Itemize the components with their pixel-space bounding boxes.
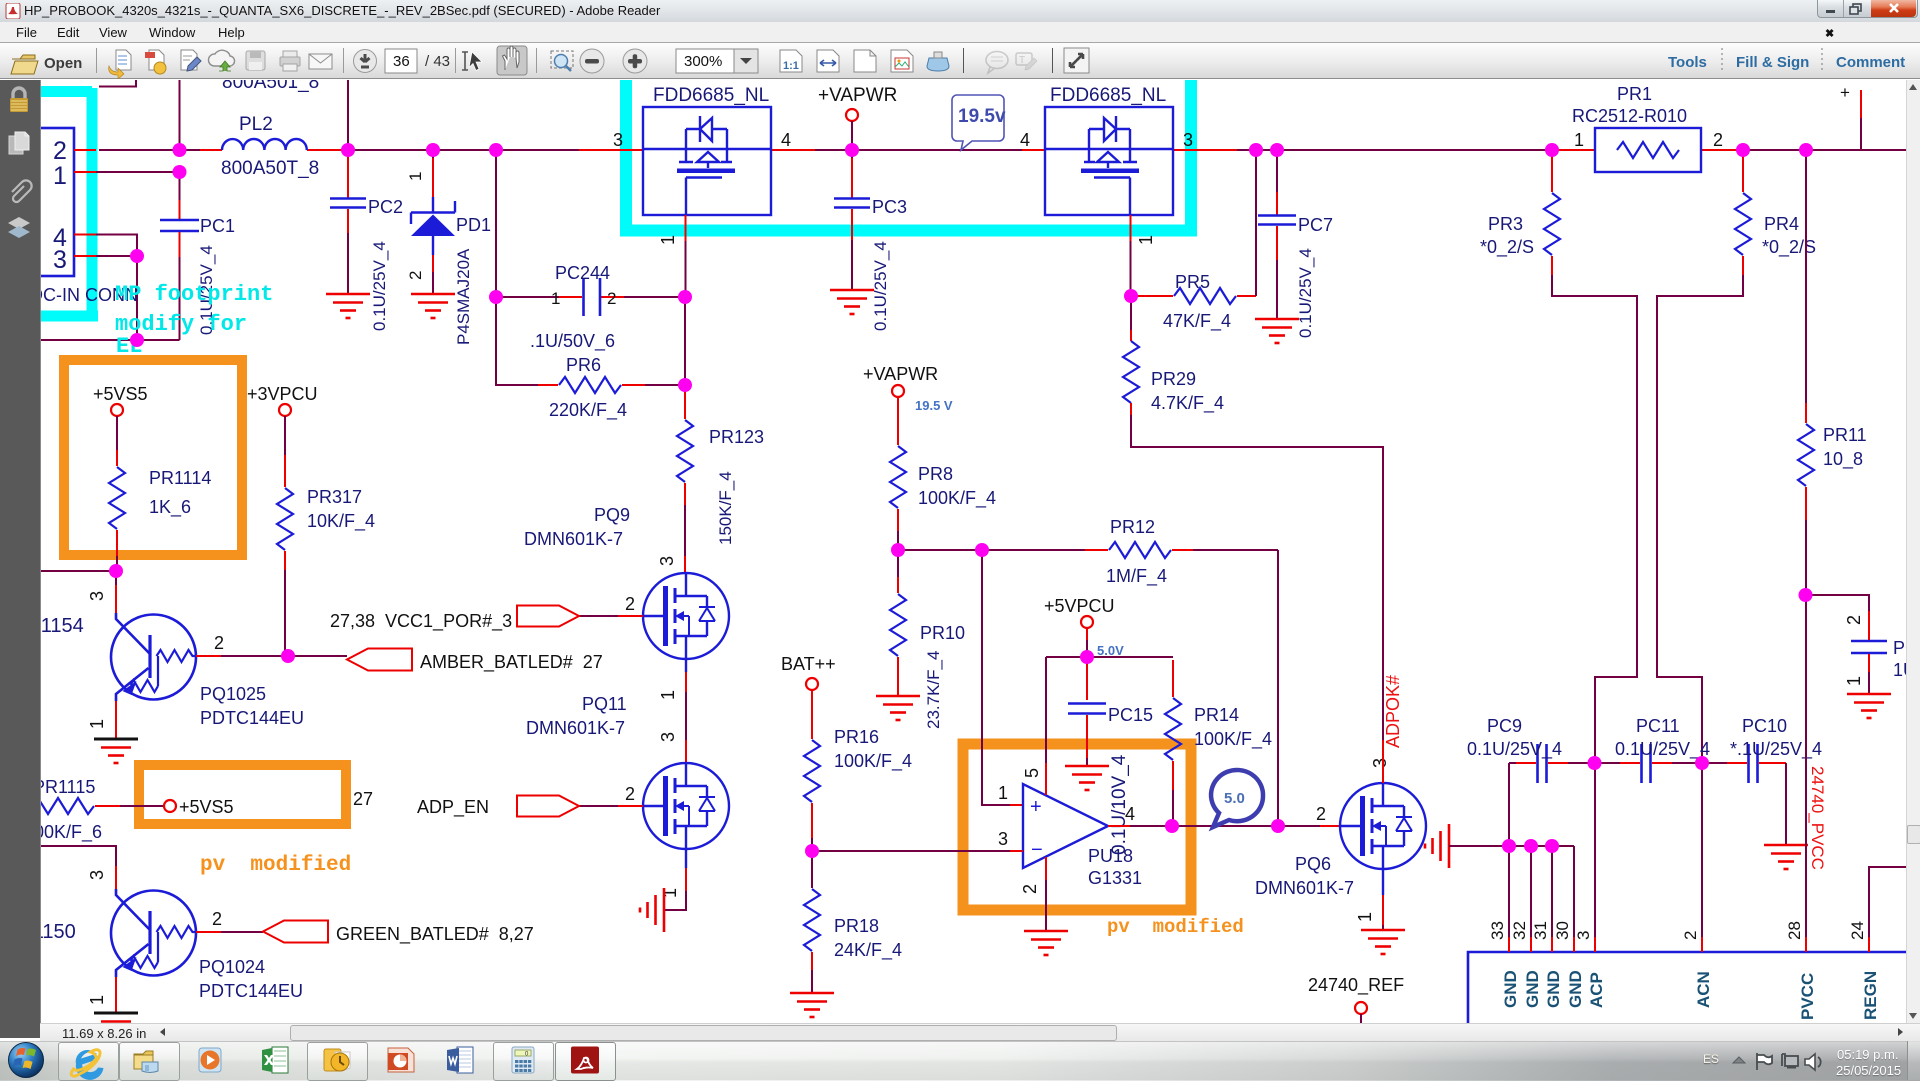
wire: ACP column / ACN column to pins: [1595, 763, 1702, 937]
op-amp PU18 G1331: [1023, 784, 1142, 888]
svg-text:24740_REF: 24740_REF: [1308, 975, 1404, 996]
svg-text:3: 3: [53, 246, 67, 274]
transistor PQ11 DMN601K-7: [643, 763, 729, 849]
node PR6 / PR123: [678, 378, 692, 392]
highlight: orange box around PU18: [963, 744, 1191, 910]
marquee zoom: [551, 51, 573, 71]
transistor Q: FDD6685_NL #2 (right P-FET block, mirrored): [1045, 107, 1173, 215]
node PC244 pin1: [489, 290, 503, 304]
diode PD1: [406, 150, 491, 345]
1:1: [780, 50, 802, 72]
wire: IC ground rail y=846: [1449, 845, 1574, 847]
wire: top-right + feed x=1861: [1860, 90, 1862, 118]
svg-text:19.5 V: 19.5 V: [915, 398, 953, 413]
comment bubble (disabled): [986, 52, 1008, 74]
ground under PC7: [1255, 319, 1299, 343]
node bus / PC7: [1270, 143, 1284, 157]
svg-text:27: 27: [353, 789, 373, 809]
svg-text:10_8: 10_8: [1823, 449, 1863, 470]
IC pin names GND GND GND GND ACP ACN PVCC REGN (rotated): [1501, 970, 1880, 1020]
printer: [280, 51, 300, 71]
svg-text:3: 3: [998, 829, 1008, 849]
svg-text:PR1154: PR1154: [41, 615, 84, 637]
resistor PR12: [1085, 517, 1193, 587]
node bus / PR5 riser: [1249, 143, 1263, 157]
svg-text:1: 1: [1844, 676, 1864, 686]
node PC11-PC10 / ACN: [1695, 756, 1709, 770]
capacitor P? (right edge, partially hidden): [1806, 595, 1920, 694]
svg-text:1: 1: [1136, 235, 1156, 245]
svg-text:*0_2/S: *0_2/S: [1480, 237, 1534, 258]
highlight: cyan box around FETs: [620, 80, 1197, 231]
svg-text:/ 43: / 43: [425, 53, 450, 70]
pin 1 of PQ1025 to ground: [115, 701, 117, 738]
pin 1 of FET2 + wire down: [1130, 215, 1132, 241]
resistor PR18: [804, 851, 902, 993]
svg-text:0.1U/25V_4: 0.1U/25V_4: [1467, 739, 1562, 760]
pin 3 of PU18 (minus input): [1010, 850, 1023, 852]
svg-text:47K/F_4: 47K/F_4: [1163, 311, 1231, 332]
svg-text:36: 36: [393, 53, 410, 70]
pin 2 of PQ9 (gate): [579, 615, 618, 617]
node gnd rail / pin33 / PC9 leg: [1502, 839, 1516, 853]
wire: PR317 bottom joins pin2 wire, continues to connector: [288, 655, 347, 657]
wire: PQ11 source to side ground: [685, 849, 687, 868]
cloud upload: [208, 50, 234, 71]
svg-text:PL2: PL2: [239, 114, 273, 135]
highlight: orange box around +5VS5: [139, 765, 346, 824]
Toolbar: [0, 42, 1920, 79]
svg-text:GREEN_BATLED# 8,27: GREEN_BATLED# 8,27: [336, 924, 534, 945]
node DC-IN pin1 / PC1: [173, 165, 187, 179]
text callout (disabled): [1016, 53, 1037, 70]
capacitor PC10: [1702, 716, 1822, 845]
wire: node down into PQ1025: [115, 571, 117, 585]
svg-text:2: 2: [53, 137, 67, 165]
wire: top-left stub from above: [99, 80, 136, 87]
ground (rotated) near PQ6 / IC gnd rail: [1425, 824, 1449, 868]
svg-text:RC2512-R010: RC2512-R010: [1572, 106, 1687, 126]
svg-text:1:1: 1:1: [783, 60, 799, 72]
connector flag ADP_EN: [517, 796, 579, 817]
node bus / PR1 pin2 / PR4: [1736, 143, 1750, 157]
svg-text:PR10: PR10: [920, 623, 965, 643]
svg-text:PC8: PC8: [1893, 638, 1906, 658]
Adobe Reader icon: [571, 1047, 599, 1074]
svg-text:PR12: PR12: [1110, 517, 1155, 537]
svg-text:PR8: PR8: [918, 464, 953, 484]
pin numbers 33 32 31 30 3 2 28 24: [1488, 921, 1867, 940]
svg-text:220K/F_4: 220K/F_4: [549, 400, 627, 421]
svg-text:PR6: PR6: [566, 355, 601, 375]
svg-text:ADPOK#: ADPOK#: [1383, 675, 1403, 748]
plus circle: [623, 49, 647, 73]
svg-text:PR29: PR29: [1151, 369, 1196, 389]
svg-text:PU18: PU18: [1088, 846, 1133, 866]
svg-text:1K_6: 1K_6: [149, 497, 191, 518]
resistor PR8: [890, 397, 996, 550]
resistor PR1115 (left edge): [24, 777, 164, 843]
resistor PR1 in box: [1572, 84, 1723, 172]
resistor PR123: [677, 389, 764, 573]
svg-text:GND: GND: [1544, 970, 1563, 1008]
svg-text:+5VPCU: +5VPCU: [1044, 596, 1115, 616]
svg-text:2: 2: [214, 633, 224, 653]
IE icon: [71, 1050, 103, 1080]
wire: PR12 right down to op-amp output: [1277, 550, 1279, 826]
svg-text:.1U/50V_6: .1U/50V_6: [530, 331, 615, 352]
svg-text:1: 1: [87, 719, 107, 729]
page box: [385, 49, 417, 73]
wire: REGN pin 24 from right edge: [1869, 867, 1906, 937]
svg-text:1: 1: [1355, 912, 1375, 922]
pin 1 of FET1 + wire down to PC244 node: [685, 215, 687, 241]
svg-text:PQ9: PQ9: [594, 505, 630, 525]
minus circle: [580, 49, 604, 73]
pin 5 of PU18: [1045, 763, 1047, 795]
node PC244 pin2 / FET1 source: [678, 290, 692, 304]
svg-text:PC15: PC15: [1108, 705, 1153, 725]
svg-text:0.1U/25V_4: 0.1U/25V_4: [1296, 248, 1315, 338]
svg-text:PC244: PC244: [555, 263, 610, 283]
node PR8 / PR10 / PR12 rail: [891, 543, 905, 557]
wire: PQ9 source to PQ11 drain: [685, 659, 687, 672]
pin 2 of PQ1024 to GREEN net: [196, 931, 221, 933]
svg-text:PR1114: PR1114: [149, 468, 211, 488]
svg-text:0.1U/25V_4: 0.1U/25V_4: [370, 241, 389, 331]
wire: PR8 node to PR12 and PU18 pin1: [898, 549, 1278, 551]
highlight: orange box around PR1114: [64, 360, 242, 555]
Calculator icon: [512, 1047, 534, 1073]
connector flag GREEN_BATLED#: [263, 921, 328, 943]
node bus / PC244 branch: [489, 143, 503, 157]
Excel icon: [262, 1047, 288, 1073]
svg-text:AMBER_BATLED# 27: AMBER_BATLED# 27: [420, 652, 603, 673]
wire: PR29 to PQ6 drain: [1131, 415, 1383, 740]
resistor PR10: [890, 550, 965, 729]
svg-text:800A50T_8: 800A50T_8: [221, 158, 319, 179]
svg-text:24: 24: [1848, 921, 1867, 940]
node bus / DC-IN pin2 feed: [173, 143, 187, 157]
svg-text:4: 4: [781, 130, 791, 150]
svg-text:30: 30: [1553, 921, 1572, 940]
svg-text:MP footprint: MP footprint: [115, 282, 273, 307]
svg-text:300%: 300%: [684, 53, 722, 70]
wire: BAT++ branch to pin 3: [812, 850, 1010, 852]
connector flag VCC1_POR#_3: [517, 606, 579, 627]
node PC9-PC11 / ACP: [1588, 756, 1602, 770]
svg-text:ADP_EN: ADP_EN: [417, 797, 489, 818]
resistor PR14: [1165, 660, 1272, 826]
svg-text:3: 3: [87, 591, 107, 601]
svg-text:1M/F_4: 1M/F_4: [1106, 566, 1167, 587]
svg-text:Open: Open: [44, 55, 82, 72]
svg-text:2: 2: [1316, 804, 1326, 824]
select tool: [462, 52, 482, 71]
WMP icon: [199, 1048, 221, 1072]
wire: PR4 bottom to ACN column: [1657, 275, 1743, 763]
capacitor PC15: [1068, 657, 1153, 855]
wire: PC9 left leg down to pin 33: [1508, 763, 1510, 937]
pin 2 of PQ1025 to AMBER net: [196, 655, 221, 657]
callout balloon 5.0: [1211, 770, 1263, 827]
highlight: cyan box around DC-IN: [41, 88, 98, 321]
blank page: [854, 50, 876, 72]
svg-text:31: 31: [1531, 921, 1550, 940]
resistor PR16: [804, 690, 912, 851]
wire: DC-IN pin1 row: [96, 171, 180, 173]
ground under PC15: [1065, 766, 1109, 790]
svg-text:PR18: PR18: [834, 916, 879, 936]
svg-text:1: 1: [551, 289, 560, 308]
page with image: [891, 50, 913, 72]
svg-text:PC11: PC11: [1636, 716, 1680, 736]
svg-text:FDD6685_NL: FDD6685_NL: [1050, 85, 1166, 106]
ground under PQ1024 (clipped): [94, 1013, 138, 1037]
svg-text:PC1: PC1: [200, 216, 235, 236]
svg-text:T: T: [1019, 55, 1025, 66]
svg-text:3: 3: [658, 732, 678, 742]
svg-text:2: 2: [607, 289, 616, 308]
svg-text:+5VS5: +5VS5: [179, 797, 234, 817]
svg-text:PR16: PR16: [834, 727, 879, 747]
svg-text:23.7K/F_4: 23.7K/F_4: [924, 651, 943, 729]
wire: pin 30 from ground rail: [1573, 846, 1575, 937]
svg-text:Tools: Tools: [1668, 54, 1707, 71]
note: MP footprint modify for EL (cyan): [115, 282, 273, 359]
pin 1 of PQ6 to ground: [1382, 869, 1384, 895]
svg-text:PD1: PD1: [456, 215, 491, 235]
resistor PR317: [277, 416, 375, 659]
svg-text:800A501_8: 800A501_8: [222, 80, 319, 93]
fullscreen: [1064, 48, 1089, 73]
doc-pencil: [181, 50, 201, 71]
svg-text:FDD6685_NL: FDD6685_NL: [653, 85, 769, 106]
start orb: [9, 1043, 44, 1078]
node BAT++ divider / PU18 pin3: [805, 844, 819, 858]
svg-text:REGN: REGN: [1861, 971, 1880, 1020]
Title bar: [0, 0, 1920, 23]
svg-text:PQ1024: PQ1024: [199, 957, 265, 977]
wire: left feed to PQ1025 collector node: [41, 570, 116, 572]
ground under PU18 pin2: [1024, 931, 1068, 955]
capacitor PC7: [1258, 150, 1333, 338]
svg-text:5.0: 5.0: [1224, 790, 1245, 807]
node bus / PD1: [426, 143, 440, 157]
ground under PD1: [411, 294, 455, 318]
connector CN? DC-IN box: [18, 128, 74, 276]
doc-star: [145, 50, 166, 74]
resistor PR29: [1123, 296, 1224, 415]
resistor PR4: [1735, 155, 1816, 275]
scrollbars: [1906, 80, 1920, 1024]
wire: PR6/PC244 node down to PR123: [684, 297, 686, 389]
taskbar buttons: [58, 1042, 119, 1081]
svg-text:*.1U/25V_4: *.1U/25V_4: [1730, 739, 1822, 760]
svg-text:100K/F_6: 100K/F_6: [41, 822, 102, 843]
ground under PQ6: [1361, 930, 1405, 954]
ground (rotated) at PQ11 source: [640, 888, 664, 932]
svg-text:PC7: PC7: [1298, 215, 1333, 235]
ground under PR18: [790, 993, 834, 1017]
wire: left feed to PQ1024 collector: [41, 846, 116, 866]
svg-text:PR14: PR14: [1194, 705, 1239, 725]
wire: vertical feed x=179.5 from top: [179, 80, 181, 150]
ink bottle: [927, 52, 949, 71]
node PR1114 / PQ1025 collector: [109, 564, 123, 578]
svg-text:100K/F_4: 100K/F_4: [918, 488, 996, 509]
transistor PQ9 DMN601K-7: [643, 573, 729, 659]
svg-text:+3VPCU: +3VPCU: [247, 384, 318, 404]
node PU18 out / PR12: [1271, 819, 1285, 833]
node gnd rail / pin31: [1545, 839, 1559, 853]
ground under right edge cap: [1847, 694, 1891, 718]
ground under PC10: [1764, 845, 1808, 869]
node rail / PU18 pin1 branch: [975, 543, 989, 557]
svg-text:2: 2: [1020, 884, 1040, 894]
svg-text:PQ6: PQ6: [1295, 854, 1331, 874]
node EL net: [130, 333, 144, 347]
svg-text:pv modified: pv modified: [200, 854, 351, 877]
svg-text:2: 2: [212, 909, 222, 929]
ground under PC2: [326, 294, 370, 318]
transistor PQ1024 PDTC144EU: [111, 889, 196, 977]
hand tool (pressed): [497, 46, 527, 75]
resistor PR11: [1798, 150, 1867, 595]
svg-text:DMN601K-7: DMN601K-7: [526, 718, 625, 738]
svg-text:1: 1: [658, 235, 678, 245]
svg-text:ACP: ACP: [1587, 972, 1606, 1008]
svg-text:2: 2: [406, 271, 425, 280]
svg-text:3: 3: [1574, 931, 1593, 940]
taskbar: [0, 1041, 1920, 1081]
svg-text:PVCC: PVCC: [1798, 973, 1817, 1020]
node PR317 / PQ1025 base wire: [281, 649, 295, 663]
inductor PL2: [222, 139, 307, 150]
connector flag AMBER_BATLED#: [347, 649, 412, 671]
svg-text:2: 2: [625, 784, 635, 804]
svg-text:2: 2: [625, 594, 635, 614]
layers icon: [8, 217, 30, 238]
transistor Q: FDD6685_NL #1 (left P-FET block): [643, 107, 771, 215]
power +5VS5 (in orange box): [164, 800, 176, 812]
svg-text:PR11: PR11: [1823, 425, 1867, 445]
pages icon: [9, 132, 29, 154]
svg-text:PQ1025: PQ1025: [200, 684, 266, 704]
wire: vertical feed x=348 from top: [347, 80, 349, 150]
wire: PVCC column to pin 28: [1805, 595, 1807, 937]
svg-text:PR4: PR4: [1764, 214, 1799, 234]
svg-text:+5VS5: +5VS5: [93, 384, 148, 404]
svg-text:PR317: PR317: [307, 487, 362, 507]
wire: PR3 bottom to ACP column: [1552, 275, 1637, 763]
paperclip icon: [12, 180, 32, 202]
svg-text:2: 2: [1844, 615, 1864, 625]
svg-text:0.1U/25V_4: 0.1U/25V_4: [1615, 739, 1710, 760]
node PU18 out / PR14: [1165, 819, 1179, 833]
power +VAPWR (middle): [892, 385, 904, 397]
Word icon: [447, 1047, 473, 1073]
svg-text:24740_PVCC: 24740_PVCC: [1808, 766, 1827, 870]
wire: op-amp output to PQ6 gate: [1130, 825, 1320, 827]
Menu bar: [0, 22, 1920, 43]
svg-text:19.5v: 19.5v: [958, 106, 1006, 127]
svg-text:28: 28: [1785, 921, 1804, 940]
svg-text:−: −: [1031, 839, 1043, 861]
svg-text:G1331: G1331: [1088, 868, 1142, 888]
svg-text:4: 4: [1125, 804, 1135, 824]
svg-text:PDTC144EU: PDTC144EU: [200, 708, 304, 728]
svg-text:2: 2: [1681, 931, 1700, 940]
svg-text:PR1115: PR1115: [41, 777, 95, 797]
wire: bus branch down x=496: [495, 150, 497, 297]
IC U? bq24740 box (bottom right): [1468, 952, 1906, 1023]
svg-text:+VAPWR: +VAPWR: [863, 364, 938, 384]
svg-text:PC9: PC9: [1487, 716, 1522, 736]
svg-text:27,38 VCC1_POR#_3: 27,38 VCC1_POR#_3: [330, 611, 512, 632]
svg-text:100K/F_4: 100K/F_4: [1194, 729, 1272, 750]
svg-text:PC2: PC2: [368, 197, 403, 217]
wire: red highlighted segments of +DC bus: [200, 149, 1743, 151]
svg-text:3: 3: [1183, 130, 1193, 150]
wire: FET2 pin1 down to PR5/PR29 node: [1131, 295, 1150, 297]
lock icon: [10, 88, 28, 112]
node bus / PC2: [341, 143, 355, 157]
svg-text:*0_2/S: *0_2/S: [1762, 237, 1816, 258]
svg-text:100K/F_4: 100K/F_4: [834, 751, 912, 772]
svg-text:DMN601K-7: DMN601K-7: [524, 529, 623, 549]
svg-text:1: 1: [406, 172, 425, 181]
pin 1 of PQ1024 to ground: [115, 977, 117, 1012]
ground under PR10: [876, 696, 920, 720]
open folder: [11, 55, 38, 74]
svg-text:150K/F_4: 150K/F_4: [716, 471, 735, 545]
node FET2 source / PR5 / PR29: [1124, 289, 1138, 303]
svg-text:P4SMAJ20A: P4SMAJ20A: [454, 248, 473, 345]
svg-text:pv modified: pv modified: [1107, 916, 1244, 938]
svg-text:4: 4: [1020, 130, 1030, 150]
callout balloon 19.5v: [952, 95, 1006, 150]
power +VAPWR (top): [846, 109, 858, 121]
svg-text:PR5: PR5: [1175, 272, 1210, 292]
svg-text:3: 3: [87, 870, 107, 880]
wire: +5VPCU node rail: [1086, 628, 1088, 640]
node DC-IN pin3/pin4: [130, 249, 144, 263]
power 24740_REF: [1355, 1002, 1367, 1014]
window buttons: [1817, 0, 1918, 18]
wire: PC244 left leg down to PR6: [496, 297, 538, 385]
fit width: [817, 50, 839, 72]
capacitor PC1: [160, 172, 235, 340]
transistor PQ6 DMN601K-7: [1340, 783, 1426, 869]
svg-text:1U/16V: 1U/16V: [1893, 660, 1906, 680]
svg-text:1: 1: [998, 783, 1008, 803]
node bus / PR11: [1799, 143, 1813, 157]
node gnd rail / pin32: [1524, 839, 1538, 853]
floppy: [246, 51, 265, 70]
svg-text:GND: GND: [1523, 970, 1542, 1008]
svg-text:3: 3: [1370, 758, 1390, 768]
svg-text:+: +: [1030, 796, 1042, 818]
svg-text:4.7K/F_4: 4.7K/F_4: [1151, 393, 1224, 414]
svg-text:2: 2: [1713, 130, 1723, 150]
svg-text:3: 3: [657, 556, 677, 566]
ground under PC3: [830, 290, 874, 314]
svg-text:PC10: PC10: [1742, 716, 1787, 736]
svg-text:BAT++: BAT++: [781, 654, 836, 674]
svg-text:24K/F_4: 24K/F_4: [834, 940, 902, 961]
pin 2 of PU18 to ground: [1045, 857, 1047, 880]
